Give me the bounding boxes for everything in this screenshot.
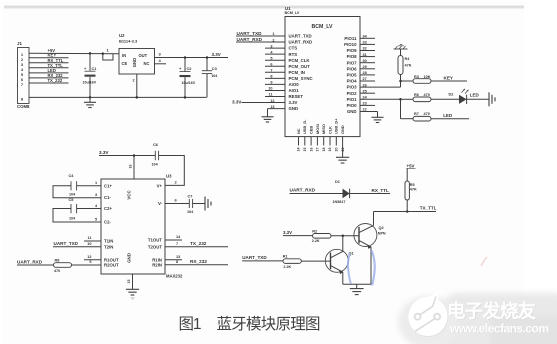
wire D2 to ground [467, 98, 489, 100]
blue watermark stroke right [372, 251, 375, 286]
svg-text:RX_232: RX_232 [190, 259, 207, 264]
wire down from LED node to R7 row [400, 99, 402, 118]
svg-text:BCM_LV: BCM_LV [312, 24, 333, 30]
svg-text:PCM_OUT: PCM_OUT [289, 64, 311, 69]
svg-text:10: 10 [87, 242, 91, 246]
svg-text:R1: R1 [283, 254, 288, 258]
wire D1 to RX_TTL [350, 193, 390, 195]
LED D2 arrows [462, 89, 465, 92]
svg-text:470: 470 [54, 269, 60, 273]
svg-text:J1: J1 [17, 41, 22, 46]
svg-text:B1114-3.3: B1114-3.3 [119, 39, 138, 44]
svg-text:3.3V: 3.3V [289, 100, 298, 105]
svg-text:T1OUT: T1OUT [148, 238, 162, 243]
resistor R6 470 [413, 97, 431, 102]
wire C6 to V+ pin 2 [159, 156, 185, 186]
U1 right GND pin 22 to ground [360, 111, 378, 113]
svg-text:5: 5 [95, 218, 97, 222]
svg-text:PCM_SYNC: PCM_SYNC [289, 76, 314, 81]
svg-text:NC: NC [296, 128, 301, 134]
svg-text:15: 15 [303, 148, 307, 152]
svg-text:28: 28 [363, 71, 367, 75]
wire U1 pin 24 PIO1 to LED node [360, 98, 401, 100]
wire R4 to KEY node [400, 75, 402, 82]
svg-text:UART_TXD: UART_TXD [289, 34, 312, 39]
svg-text:C5: C5 [69, 197, 75, 202]
svg-text:D2: D2 [449, 93, 454, 97]
svg-text:MAX232: MAX232 [166, 274, 183, 279]
svg-text:UART_RXD: UART_RXD [290, 187, 316, 192]
svg-text:UART_TXD: UART_TXD [242, 255, 267, 260]
svg-text:R2: R2 [312, 229, 317, 233]
svg-text:9: 9 [270, 81, 272, 85]
svg-text:12: 12 [87, 255, 91, 259]
svg-text:3.3V: 3.3V [232, 99, 242, 104]
svg-text:33: 33 [363, 41, 367, 45]
svg-text:www.elecfans.com: www.elecfans.com [449, 321, 549, 335]
svg-text:16: 16 [309, 148, 313, 152]
svg-text:TX_232: TX_232 [48, 78, 63, 83]
J1 pin wires and net labels [29, 57, 69, 59]
svg-text:10K: 10K [424, 75, 431, 79]
svg-text:3.3V: 3.3V [99, 150, 109, 155]
svg-text:GND: GND [340, 125, 345, 134]
wire U1 pin 26 PIO3 to KEY node [360, 86, 401, 88]
svg-text:R3: R3 [414, 75, 419, 79]
resistor R2 2.2K [313, 234, 332, 239]
svg-text:TX_TTL: TX_TTL [420, 206, 437, 211]
resistor R7 470 [413, 116, 431, 121]
svg-text:CE: CE [122, 61, 128, 66]
regulator output wire 3.3V [155, 57, 229, 59]
svg-text:R2IN: R2IN [152, 262, 162, 267]
svg-text:USB_D+: USB_D+ [334, 118, 339, 134]
svg-text:PIO5: PIO5 [347, 73, 357, 78]
U1 GND pin 13 wire and ground [268, 108, 286, 110]
net UART_TXD to T2IN pin 10 [53, 246, 101, 248]
svg-text:COM8: COM8 [17, 104, 30, 109]
wire R6 to D2 [431, 98, 459, 100]
svg-text:3: 3 [95, 193, 97, 197]
svg-text:R6: R6 [414, 93, 419, 97]
svg-text:R2OUT: R2OUT [104, 263, 119, 268]
svg-text:15: 15 [127, 280, 131, 284]
svg-text:7: 7 [270, 69, 272, 73]
svg-text:UART_RXD: UART_RXD [17, 259, 43, 264]
svg-text:3.3V: 3.3V [283, 230, 292, 235]
svg-text:32: 32 [363, 47, 367, 51]
svg-text:C2: C2 [187, 66, 193, 71]
svg-text:7: 7 [176, 242, 178, 246]
svg-text:IN: IN [122, 53, 126, 58]
resistor R3 10K [413, 79, 431, 84]
svg-text:VCC: VCC [127, 190, 132, 200]
U3 T1IN stub pin 11 [84, 240, 101, 242]
MAX232 VCC pin 16 wire [133, 156, 135, 180]
net 3.3V wire to U1 pin 12 [242, 102, 286, 104]
svg-text:C7: C7 [188, 194, 193, 199]
net UART_TXD wire to U1 pin 1 [236, 35, 285, 37]
power symbol above R4 [394, 48, 408, 50]
svg-text:NPN: NPN [378, 232, 386, 236]
svg-text:蓝牙模块原理图: 蓝牙模块原理图 [217, 315, 321, 333]
svg-text:T1IN: T1IN [104, 239, 113, 244]
svg-text:10: 10 [268, 87, 272, 91]
svg-text:1: 1 [95, 181, 97, 185]
svg-text:C1: C1 [92, 66, 98, 71]
svg-text:470: 470 [424, 93, 430, 97]
svg-text:T2OUT: T2OUT [148, 244, 162, 249]
svg-text:+5V: +5V [48, 48, 56, 53]
svg-text:GND: GND [127, 253, 132, 263]
svg-text:BCM_LV: BCM_LV [285, 11, 300, 15]
svg-text:U2: U2 [119, 33, 125, 38]
svg-text:20: 20 [335, 148, 339, 152]
svg-text:23: 23 [363, 102, 367, 106]
capacitor C2 [184, 58, 186, 72]
U3 V- pin 6 wire [165, 203, 189, 205]
svg-text:6: 6 [270, 62, 272, 66]
LED D2 [459, 95, 467, 104]
svg-text:17: 17 [316, 148, 320, 152]
svg-text:MOSI: MOSI [315, 124, 320, 134]
svg-text:470: 470 [424, 112, 430, 116]
svg-text:27: 27 [363, 77, 367, 81]
capacitor C7 [188, 199, 190, 208]
svg-text:RTS: RTS [289, 52, 298, 57]
svg-text:1N5817: 1N5817 [333, 200, 346, 204]
pin 1 jog on +5V wire [102, 52, 105, 55]
svg-text:LED: LED [443, 113, 453, 118]
svg-text:10u/16V: 10u/16V [182, 81, 196, 85]
svg-text:GND: GND [132, 58, 137, 68]
svg-text:LED: LED [470, 92, 480, 97]
wire R5 to TX_TTL node [406, 200, 408, 212]
svg-text:104: 104 [187, 210, 194, 214]
resistor R8 470 [54, 263, 72, 268]
svg-text:UART_TXD: UART_TXD [237, 31, 263, 36]
transistor Q1 NPN [325, 249, 348, 272]
svg-text:16: 16 [129, 165, 133, 169]
svg-text:PIO6: PIO6 [347, 66, 357, 71]
ground right of C7 [204, 197, 206, 211]
svg-text:2: 2 [133, 79, 135, 83]
svg-text:CEB: CEB [309, 126, 314, 134]
svg-text:2.2K: 2.2K [283, 265, 291, 269]
svg-text:3: 3 [270, 44, 272, 48]
svg-text:2.2K: 2.2K [312, 239, 320, 243]
svg-text:30: 30 [363, 59, 367, 63]
svg-text:+5V: +5V [407, 164, 415, 169]
capacitor C6 [154, 151, 156, 160]
svg-text:U1: U1 [285, 6, 291, 11]
svg-text:11: 11 [87, 236, 91, 240]
regulator GND wire [136, 74, 138, 97]
capacitor C1 [89, 53, 91, 70]
svg-text:R8: R8 [55, 259, 60, 263]
wire R2 to Q2 base [331, 235, 359, 237]
svg-text:RESET: RESET [289, 94, 304, 99]
wire R1 to Q1 base [301, 260, 330, 262]
regulator NC stub [155, 63, 167, 65]
svg-text:UART_TXD: UART_TXD [54, 241, 79, 246]
svg-text:11: 11 [268, 93, 272, 97]
resistor R1 2.2K [283, 259, 301, 264]
svg-text:D1: D1 [335, 180, 340, 184]
svg-text:PIO10: PIO10 [344, 42, 357, 47]
svg-text:PCM_CLK: PCM_CLK [289, 58, 311, 63]
svg-text:29: 29 [363, 65, 367, 69]
wire pin8 ground rail [29, 96, 207, 98]
svg-text:T2IN: T2IN [104, 244, 113, 249]
svg-text:AIO1: AIO1 [289, 88, 300, 93]
svg-text:PIO4: PIO4 [347, 79, 357, 84]
ground below Q1 Q2 [350, 288, 364, 290]
net UART_RXD wire to U1 pin 2 [236, 41, 285, 43]
svg-text:GND: GND [289, 106, 299, 111]
svg-text:10u/16V: 10u/16V [83, 81, 97, 85]
svg-text:PCM_IN: PCM_IN [289, 70, 305, 75]
svg-text:13: 13 [176, 255, 180, 259]
U1 bottom GND pin 21 ground [342, 146, 344, 158]
svg-text:104: 104 [211, 74, 218, 78]
svg-text:PIO7: PIO7 [347, 60, 357, 65]
wire LED node [399, 98, 402, 101]
svg-text:19: 19 [328, 148, 332, 152]
faint pink scan artifact [481, 257, 487, 266]
svg-text:TX_232: TX_232 [190, 241, 207, 246]
svg-text:104: 104 [69, 217, 76, 221]
U1 left pin stubs rows 3-11 [265, 47, 285, 49]
elecfans logo circle [409, 298, 448, 337]
ground below C1 [89, 97, 91, 102]
U3 GND pin 15 ground [132, 274, 134, 289]
emitter ground rail [343, 283, 371, 285]
net TX_232 from T2OUT pin 7 [165, 246, 228, 248]
svg-text:C2+: C2+ [104, 206, 112, 211]
svg-text:电子发烧友: 电子发烧友 [447, 301, 536, 322]
svg-text:CTS: CTS [289, 46, 298, 51]
resistor R4 47K [398, 56, 403, 75]
U1 right pin stubs [360, 37, 375, 39]
U3 R1IN stub pin 13 [165, 259, 182, 261]
svg-text:PIO2: PIO2 [347, 91, 357, 96]
wire C7 to side ground [193, 203, 205, 205]
net RX_232 to R2IN pin 8 [165, 264, 228, 266]
svg-text:USB_D-: USB_D- [302, 119, 307, 134]
transistor Q2 NPN [354, 224, 377, 247]
svg-text:UART_RXD: UART_RXD [289, 40, 313, 45]
svg-text:PIO9: PIO9 [347, 48, 357, 53]
svg-text:V-: V- [158, 201, 163, 206]
svg-text:PIO0: PIO0 [347, 103, 357, 108]
svg-text:C1+: C1+ [104, 183, 112, 188]
svg-text:Q2: Q2 [379, 225, 385, 230]
svg-text:C2-: C2- [104, 220, 111, 225]
svg-text:104: 104 [69, 192, 76, 196]
svg-text:5: 5 [270, 56, 272, 60]
svg-text:OUT: OUT [139, 53, 148, 58]
resistor R5 47K [405, 181, 409, 200]
svg-text:18: 18 [322, 148, 326, 152]
svg-text:NC: NC [144, 61, 150, 66]
svg-text:U3: U3 [166, 174, 172, 179]
svg-text:31: 31 [363, 53, 367, 57]
svg-text:图1: 图1 [179, 316, 202, 333]
svg-text:25: 25 [363, 89, 367, 93]
svg-text:14: 14 [297, 148, 301, 152]
blue watermark stroke left [348, 254, 351, 284]
wire LED node to R7 [401, 118, 414, 120]
wire KEY node to R3 [401, 80, 414, 82]
svg-text:R7: R7 [414, 112, 419, 116]
capacitor C3 [206, 58, 208, 71]
wire +5V to R5 [406, 169, 408, 182]
svg-text:R5: R5 [410, 183, 415, 187]
svg-text:GND: GND [347, 109, 357, 114]
svg-text:CLK: CLK [327, 126, 332, 134]
svg-text:C3: C3 [212, 66, 218, 71]
svg-text:47K: 47K [405, 63, 412, 67]
svg-text:9: 9 [89, 260, 91, 264]
svg-text:8: 8 [270, 75, 272, 79]
svg-text:MISO: MISO [321, 124, 326, 134]
net TX_TTL wire [374, 211, 437, 213]
svg-text:KEY: KEY [444, 76, 453, 81]
svg-text:PIO11: PIO11 [344, 36, 357, 41]
U3 T1OUT stub pin 14 [165, 239, 182, 241]
svg-text:3.3V: 3.3V [212, 52, 221, 57]
svg-text:RX_TTL: RX_TTL [372, 188, 390, 193]
svg-text:V+: V+ [157, 183, 163, 188]
svg-text:AIO0: AIO0 [289, 82, 300, 87]
svg-text:47K: 47K [410, 188, 417, 192]
ground right of D2 [488, 92, 490, 106]
svg-text:PIO1: PIO1 [347, 97, 357, 102]
svg-text:8: 8 [176, 260, 178, 264]
svg-text:UART_RXD: UART_RXD [237, 37, 263, 42]
svg-text:C4: C4 [69, 173, 75, 178]
svg-text:PIO8: PIO8 [347, 54, 357, 59]
wire R8 to U3 [72, 264, 102, 266]
svg-text:C1-: C1- [104, 195, 111, 200]
wire R3 to KEY label [431, 80, 467, 82]
svg-text:C6: C6 [153, 142, 159, 147]
wire R7 to LED label [431, 118, 469, 120]
U3 R1OUT stub pin 12 [84, 259, 101, 261]
svg-text:PIO3: PIO3 [347, 85, 357, 90]
svg-text:104: 104 [152, 163, 159, 167]
+5V rail wire [29, 52, 119, 55]
